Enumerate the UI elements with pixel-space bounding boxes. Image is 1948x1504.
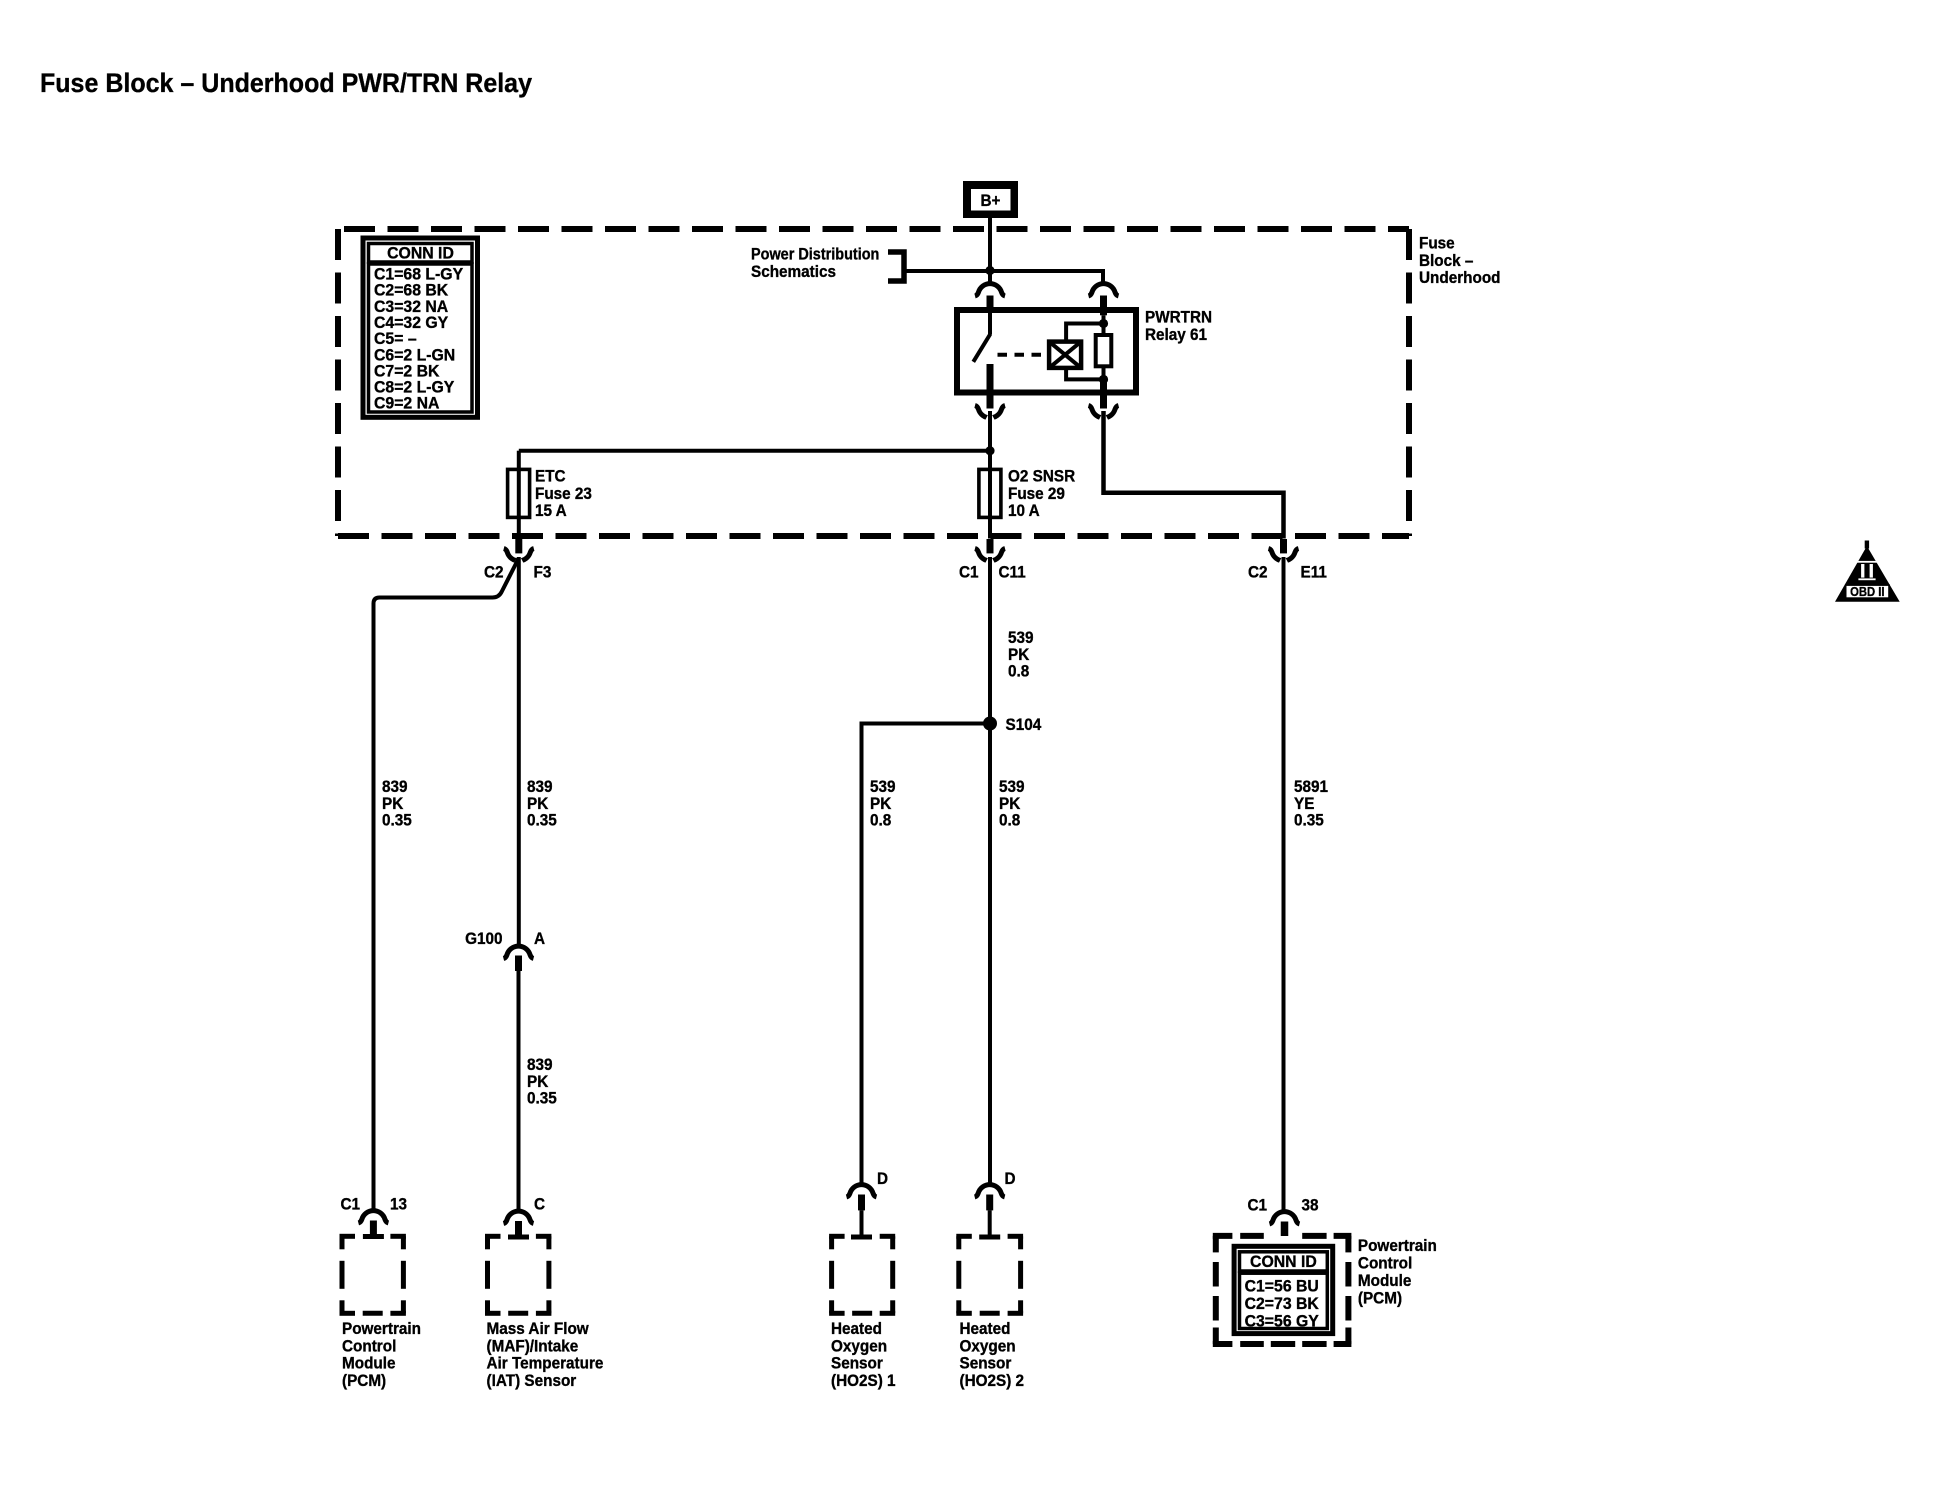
wire: circuit 839 from F3 to G100 (517, 557, 521, 946)
junction: coil/resistor bottom (1099, 375, 1108, 384)
svg-text:0.8: 0.8 (870, 811, 891, 830)
svg-text:C: C (534, 1195, 545, 1214)
svg-text:C3=56 GY: C3=56 GY (1245, 1312, 1319, 1331)
svg-text:(PCM): (PCM) (342, 1371, 386, 1390)
svg-text:Module: Module (1358, 1271, 1412, 1290)
wire: circuit 839 from C2 to PCM (374, 558, 519, 1210)
wire: circuit 539 from C11 to S104 (988, 557, 992, 724)
wire: B+ feed into fuse block (988, 218, 992, 284)
ETC fuse 23 (508, 469, 530, 517)
svg-text:O2 SNSR: O2 SNSR (1008, 467, 1075, 486)
svg-text:Oxygen: Oxygen (831, 1337, 887, 1356)
relay actuating dashed link (998, 353, 1047, 357)
wire: relay output to E11 (1104, 411, 1284, 539)
svg-text:Fuse: Fuse (1419, 234, 1455, 253)
svg-text:ETC: ETC (535, 467, 566, 486)
svg-text:(IAT) Sensor: (IAT) Sensor (487, 1371, 577, 1390)
PCM (right) dashed component box (1213, 1233, 1233, 1239)
connector C at MAF/IAT sensor (504, 1211, 534, 1223)
svg-text:(HO2S) 2: (HO2S) 2 (960, 1371, 1025, 1390)
Powertrain Control Module (PCM) dashed box (340, 1234, 356, 1239)
svg-text:A: A (534, 929, 545, 948)
off-page reference bracket (power distribution schematics) (888, 252, 904, 281)
svg-text:Oxygen: Oxygen (960, 1337, 1016, 1356)
connector cup: relay terminal bottom-right (1089, 406, 1119, 418)
svg-text:PWRTRN: PWRTRN (1145, 308, 1212, 327)
wire: fuse supply bus to ETC fuse (519, 449, 990, 453)
junction: B+ feed / power distribution bus (985, 266, 994, 275)
svg-text:Mass Air Flow: Mass Air Flow (487, 1319, 590, 1338)
svg-text:Powertrain: Powertrain (1358, 1236, 1437, 1255)
connector D at HO2S 2 (975, 1185, 1005, 1197)
svg-text:Fuse Block – Underhood PWR/TRN: Fuse Block – Underhood PWR/TRN Relay (40, 68, 532, 98)
svg-text:0.35: 0.35 (527, 1089, 557, 1108)
svg-text:OBD II: OBD II (1850, 584, 1884, 599)
svg-text:D: D (877, 1169, 888, 1188)
connector C2/F3 below fuse block (515, 539, 522, 553)
svg-text:E11: E11 (1301, 563, 1327, 582)
svg-text:Module: Module (342, 1354, 396, 1373)
svg-text:C1: C1 (1247, 1196, 1267, 1215)
Heated Oxygen Sensor (HO2S) 2 dashed box (956, 1234, 972, 1239)
relay switch fixed contact pin (987, 364, 994, 409)
svg-text:Relay 61: Relay 61 (1145, 325, 1207, 344)
connector ID table of fuse block (363, 238, 478, 417)
Heated Oxygen Sensor (HO2S) 1 dashed box (829, 1234, 845, 1239)
svg-text:Schematics: Schematics (751, 262, 836, 281)
svg-text:Sensor: Sensor (960, 1354, 1012, 1373)
wire: S104 to HO2S 2 (988, 724, 992, 1185)
svg-text:(MAF)/Intake: (MAF)/Intake (487, 1337, 579, 1356)
connector C1/38 at PCM (right) (1270, 1212, 1300, 1224)
connector G100 / terminal A (504, 946, 534, 958)
svg-text:Underhood: Underhood (1419, 268, 1501, 287)
svg-text:(HO2S) 1: (HO2S) 1 (831, 1371, 896, 1390)
svg-text:Fuse 29: Fuse 29 (1008, 484, 1065, 503)
wire: coil top lead (1066, 324, 1103, 342)
svg-text:Air Temperature: Air Temperature (487, 1354, 604, 1373)
svg-text:0.8: 0.8 (1008, 662, 1029, 681)
svg-text:C1=56 BU: C1=56 BU (1245, 1277, 1319, 1296)
svg-text:Block –: Block – (1419, 251, 1473, 270)
splice S104 (983, 717, 997, 731)
wire: S104 branch to HO2S 1 (862, 724, 991, 1185)
svg-text:0.35: 0.35 (527, 811, 557, 830)
relay bottom-right pin (1100, 382, 1107, 409)
O2 SNSR fuse 29 (979, 469, 1001, 517)
wire: 839 below G100 (517, 971, 521, 1211)
svg-text:F3: F3 (534, 563, 552, 582)
connector D at HO2S 1 (847, 1185, 877, 1197)
relay PWRTRN box (957, 310, 1136, 393)
svg-text:15 A: 15 A (535, 501, 567, 520)
junction: fuse bus (985, 446, 994, 455)
svg-text:0.8: 0.8 (999, 811, 1020, 830)
svg-text:13: 13 (390, 1195, 407, 1214)
svg-text:C2: C2 (1248, 563, 1268, 582)
svg-text:10 A: 10 A (1008, 501, 1040, 520)
wire: circuit 5891 from E11 to PCM (1282, 557, 1286, 1211)
svg-text:C2=73 BK: C2=73 BK (1245, 1294, 1319, 1313)
svg-text:(PCM): (PCM) (1358, 1289, 1402, 1308)
Mass Air Flow (MAF)/IAT sensor dashed box (485, 1234, 501, 1239)
connector arch: relay terminal top-left (975, 284, 1005, 296)
svg-text:Control: Control (1358, 1254, 1412, 1273)
svg-text:C1: C1 (959, 563, 979, 582)
svg-text:B+: B+ (981, 191, 1001, 210)
svg-text:S104: S104 (1006, 715, 1042, 734)
svg-text:Powertrain: Powertrain (342, 1319, 421, 1338)
svg-text:G100: G100 (465, 929, 502, 948)
svg-text:C9=2 NA: C9=2 NA (374, 394, 440, 413)
svg-text:C1: C1 (340, 1195, 360, 1214)
svg-text:Sensor: Sensor (831, 1354, 883, 1373)
wire: relay output to fuses (988, 411, 992, 469)
O2 SNSR fuse 29 wire (988, 469, 992, 539)
ETC fuse 23 wire (517, 469, 521, 539)
connector C1/C11 below fuse block (987, 539, 994, 553)
connector cup: relay terminal bottom-left (975, 406, 1005, 418)
relay switch (movable contact) (988, 313, 992, 335)
wire: coil bottom lead (1066, 368, 1103, 380)
junction: coil/resistor top (1099, 319, 1108, 328)
svg-text:0.35: 0.35 (382, 811, 412, 830)
svg-text:C2: C2 (484, 563, 504, 582)
svg-text:C11: C11 (999, 563, 1026, 582)
svg-text:Fuse 23: Fuse 23 (535, 484, 592, 503)
OBD II marker triangle (1835, 546, 1900, 602)
connector ID table of PCM (right) (1234, 1246, 1333, 1333)
connector arch: relay terminal top-right (1089, 284, 1119, 296)
svg-text:Heated: Heated (960, 1319, 1011, 1338)
connector C1/13 at PCM (358, 1211, 388, 1223)
wire: power distribution bus (906, 271, 1103, 284)
B+ power terminal (963, 181, 1018, 218)
svg-text:CONN ID: CONN ID (1250, 1252, 1317, 1271)
svg-text:Heated: Heated (831, 1319, 882, 1338)
connector C2/E11 below fuse block (1280, 539, 1287, 553)
relay coil driver box with X (1049, 342, 1081, 368)
svg-text:38: 38 (1302, 1196, 1319, 1215)
relay internal resistor (1102, 324, 1106, 336)
svg-text:Power Distribution: Power Distribution (751, 245, 879, 263)
svg-text:CONN ID: CONN ID (387, 244, 454, 263)
fuse block underhood dashed boundary box (338, 226, 1409, 232)
svg-text:0.35: 0.35 (1294, 811, 1324, 830)
svg-text:Control: Control (342, 1337, 396, 1356)
svg-text:D: D (1005, 1169, 1016, 1188)
